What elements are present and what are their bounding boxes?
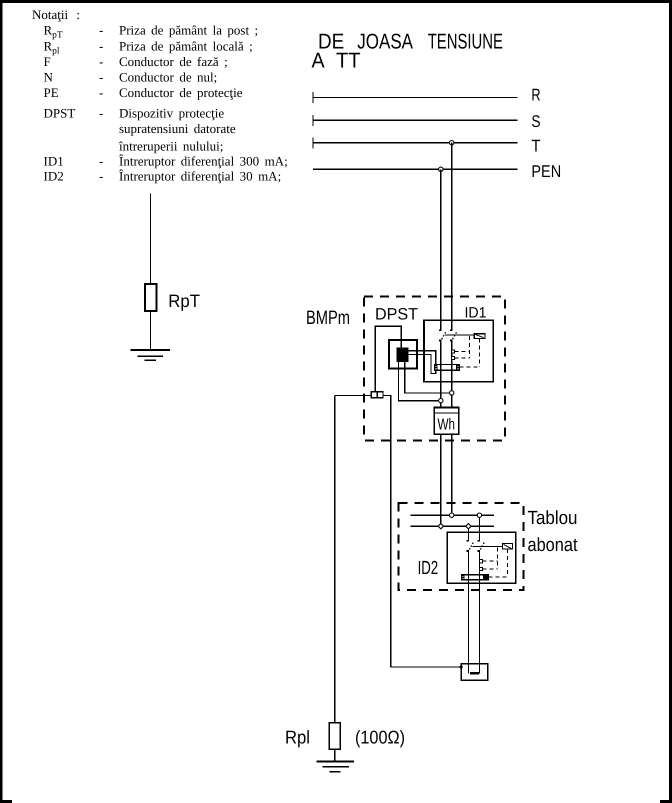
- wire DPST sense lower: [409, 354, 436, 373]
- svg-text:A: A: [312, 49, 326, 73]
- svg-text:DPST: DPST: [44, 106, 76, 121]
- svg-text:F: F: [44, 54, 51, 69]
- bus S: [313, 119, 518, 121]
- junction dot PE-socket: [460, 665, 463, 668]
- wire DPST sense upper: [409, 351, 436, 365]
- svg-text:Întreruptor diferenţial 30 mA;: Întreruptor diferenţial 30 mA;: [119, 169, 281, 184]
- ID1 toroid: [435, 365, 460, 371]
- ground local: [317, 762, 355, 772]
- svg-text:-: -: [99, 153, 103, 168]
- svg-text:PEN: PEN: [531, 162, 561, 181]
- wire PE to socket: [391, 666, 462, 668]
- svg-text:T: T: [531, 137, 540, 156]
- svg-text:abonat: abonat: [528, 535, 579, 556]
- resistor RpT: [145, 284, 157, 311]
- svg-text:Conductor de nul;: Conductor de nul;: [119, 69, 217, 84]
- drop to ID2 right pole: [478, 515, 480, 541]
- ID2 toroid: [462, 575, 489, 580]
- svg-text:-: -: [99, 69, 103, 84]
- svg-text:-: -: [99, 106, 103, 121]
- svg-text:Întreruptor diferenţial 300 mA: Întreruptor diferenţial 300 mA;: [119, 153, 288, 168]
- bus R: [313, 96, 518, 98]
- ID1 left pole contact: [439, 169, 446, 407]
- svg-text:Dispozitiv protecţie: Dispozitiv protecţie: [119, 106, 224, 121]
- socket outlet box: [461, 664, 488, 681]
- svg-text:-: -: [99, 23, 103, 38]
- ID1 coil bumps: [452, 350, 455, 360]
- svg-text:Conductor de fază ;: Conductor de fază ;: [119, 54, 228, 69]
- ID2 coil bumps: [479, 560, 482, 571]
- resistor Rpl: [329, 723, 340, 749]
- svg-text:R: R: [531, 86, 540, 105]
- ID2 right pole contact: [478, 541, 485, 674]
- svg-text:ID1: ID1: [44, 153, 64, 168]
- Tablou abonat dashed enclosure: [398, 503, 523, 590]
- BMPm dashed enclosure: [364, 297, 505, 441]
- svg-text:Rpl: Rpl: [285, 726, 310, 747]
- ID2 box: [447, 532, 516, 583]
- junction circle on PEN: [439, 167, 443, 171]
- meter Wh box: [434, 408, 458, 435]
- svg-text:supratensiuni datorate: supratensiuni datorate: [119, 121, 236, 136]
- svg-text:DPST: DPST: [375, 305, 418, 323]
- ID2 left pole contact: [467, 541, 474, 674]
- wire terminal to Rpl riser: [335, 394, 372, 396]
- drop to ID2 left pole: [467, 526, 469, 541]
- ID1 right pole contact: [450, 143, 457, 408]
- svg-text:(100Ω): (100Ω): [355, 726, 405, 747]
- ID1 linkage dashes: [455, 336, 470, 358]
- wire riser to Rpl: [334, 395, 336, 723]
- svg-text:-: -: [99, 38, 103, 53]
- svg-text:BMPm: BMPm: [306, 307, 350, 329]
- ID1 trip dashes: [459, 338, 479, 367]
- ID2 trip relay: [503, 544, 513, 550]
- junction diamond bus2 right: [466, 524, 471, 529]
- junction circle bus1 left: [450, 513, 454, 517]
- junction circle left pole: [439, 398, 443, 402]
- node T tap: [451, 143, 453, 321]
- PE terminal block: [371, 392, 383, 398]
- svg-text:-: -: [99, 54, 103, 69]
- svg-text:N: N: [44, 69, 54, 84]
- svg-text:Tablou: Tablou: [528, 508, 578, 529]
- svg-text:Conductor de protecţie: Conductor de protecţie: [119, 85, 243, 100]
- ID1 box: [424, 320, 493, 381]
- svg-text:JOASA: JOASA: [357, 30, 413, 54]
- DPST box: [389, 340, 417, 369]
- wire Wh to tablou right: [451, 434, 453, 512]
- wire Rpl to ground: [334, 749, 336, 761]
- wire RpT to ground: [150, 311, 152, 350]
- svg-text:Wh: Wh: [438, 417, 456, 434]
- svg-text:-: -: [99, 85, 103, 100]
- bus PEN: [313, 168, 518, 170]
- svg-text:ID2: ID2: [418, 558, 439, 579]
- junction circle bus1 right: [477, 513, 481, 517]
- ground post: [131, 350, 171, 361]
- junction circle right pole: [450, 391, 454, 395]
- node PEN tap: [440, 169, 442, 320]
- svg-text:Notaţii :: Notaţii :: [32, 7, 80, 22]
- ID1 trip wire: [445, 334, 474, 336]
- tablou bus line 1: [411, 514, 494, 516]
- svg-text:ID1: ID1: [465, 305, 487, 322]
- svg-text:-: -: [99, 169, 103, 184]
- ID1 trip relay: [474, 334, 485, 339]
- svg-text:Priza de pământ la post ;: Priza de pământ la post ;: [119, 23, 258, 38]
- ID2 trip dashes: [489, 549, 508, 577]
- svg-text:întreruperii nulului;: întreruperii nulului;: [118, 138, 223, 153]
- svg-text:TENSIUNE: TENSIUNE: [428, 30, 503, 54]
- wire DPST to right pole node: [405, 362, 449, 393]
- svg-text:PE: PE: [44, 85, 59, 100]
- ID2 trip wire: [472, 545, 502, 547]
- wire PE down-run: [383, 395, 391, 667]
- svg-text:S: S: [531, 112, 540, 131]
- junction diamond bus2 left: [438, 524, 443, 529]
- svg-text:ID2: ID2: [44, 169, 64, 184]
- wire DPST to PE terminal: [375, 326, 401, 391]
- wire RpT drop: [150, 194, 152, 284]
- ID2 linkage dashes: [482, 548, 497, 569]
- wire DPST to left pole node: [398, 362, 438, 401]
- socket contact bar: [470, 672, 479, 675]
- svg-text:Priza de pământ locală ;: Priza de pământ locală ;: [119, 38, 253, 53]
- junction circle on T: [450, 141, 454, 145]
- svg-text:TT: TT: [336, 49, 361, 73]
- wire Wh to tablou left: [440, 434, 442, 523]
- svg-text:RpT: RpT: [168, 291, 200, 311]
- DPST element: [397, 348, 409, 363]
- bus T: [313, 142, 518, 144]
- tablou bus line 2: [411, 525, 494, 527]
